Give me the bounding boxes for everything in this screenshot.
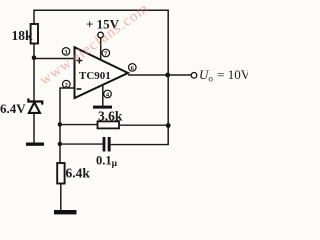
output junction dot [165,73,170,78]
resistor R1 18k body [31,24,38,44]
wire node A down to zener D1 [33,58,35,101]
resistor R2 3.6k body [98,121,120,128]
svg-text:3.6k: 3.6k [98,108,123,123]
ground bar under zener [26,143,44,146]
wire top rail from R1 top to output column [34,10,168,62]
zener diode D1 6.4V [28,98,42,113]
label 18k [12,28,34,43]
wire R2 row left segment [60,124,98,126]
svg-text:6.4V: 6.4V [0,101,26,116]
wire C1 row right segment [111,144,169,146]
wire output column down to feedback rows [167,62,169,145]
pin 2 circled number [63,80,71,88]
pin 6 circled number [129,64,137,72]
wire zener anode to ground [33,113,35,143]
minus sign inverting input [77,88,82,90]
label Uo = 10V [199,67,251,84]
junction dot output column at R2 row [166,123,171,128]
wire op-amp output to terminal [128,74,191,76]
wire node A to op-amp pin 3 [34,58,75,60]
output terminal circle [191,73,197,79]
wire pin 2 left and down feedback column [60,88,75,163]
svg-text:6.4k: 6.4k [66,166,91,181]
ground bar under R3 [54,210,77,214]
+15V supply terminal circle [98,32,104,38]
junction dot feedback column at C1 row [58,142,62,146]
ground bar under pin 4 [93,106,112,109]
svg-text:Uo = 10V: Uo = 10V [199,67,248,84]
pin 7 circled number [102,49,110,57]
wire R3 bottom to ground [60,184,62,211]
label 6.4V [0,101,26,116]
pin 4 circled number [104,90,112,98]
watermark www.elecfans.com [37,0,152,89]
wire C1 row left segment [60,143,103,145]
label +15V [86,17,120,32]
label 6.4k [66,166,91,181]
svg-text:TC901: TC901 [79,70,111,82]
label 0.1u [96,154,118,170]
wire R2 row right segment [119,124,168,126]
wire +15V to pin 7 [100,38,102,61]
op-amp label TC901 [79,70,111,82]
label 3.6k [98,108,123,123]
junction dot feedback column at R2 row [58,122,62,126]
pin 3 circled number [62,48,70,56]
op-amp U1 triangle [75,47,129,98]
svg-text:0.1μ: 0.1μ [96,154,118,170]
wire R1 bottom to node A [33,44,35,59]
wire pin 4 to ground [102,85,104,107]
resistor R3 6.4k body [57,163,64,184]
svg-text:18k: 18k [12,28,34,43]
capacitor C1 plates [103,137,111,152]
node A junction dot [32,55,37,60]
plus sign non-inverting input [76,58,82,64]
